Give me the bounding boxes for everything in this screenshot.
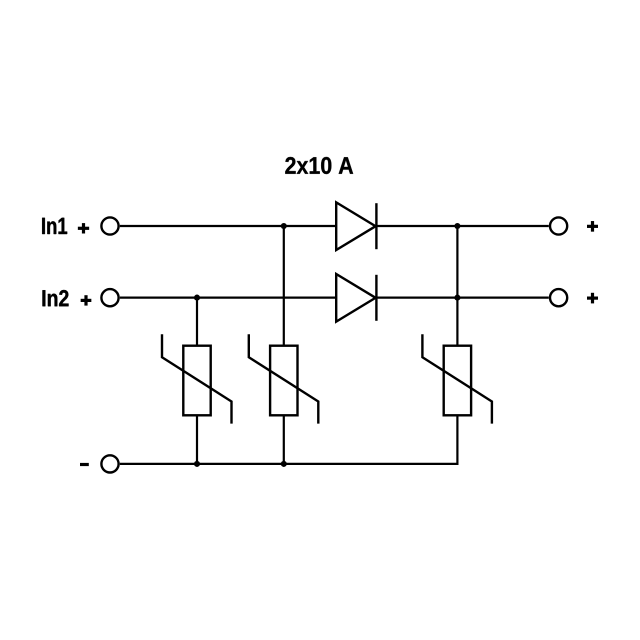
label In2 plus sign xyxy=(81,295,92,305)
wire D1 to output terminal xyxy=(376,225,548,227)
diode D2 xyxy=(336,274,376,322)
junction In2 and varistor R1 branch xyxy=(194,295,200,301)
terminal minus xyxy=(101,455,118,472)
wire In2 to diode D2 xyxy=(120,297,336,299)
label In1 xyxy=(42,218,67,234)
terminal Out2 xyxy=(550,289,567,306)
wire vertical from In1 line to varistor R2 xyxy=(283,226,285,346)
label 2x10 A xyxy=(285,157,353,174)
junction In1 and varistor R2 branch xyxy=(281,223,287,229)
varistor R1 xyxy=(162,334,232,423)
label Out2 plus sign xyxy=(587,293,598,304)
terminal Out1 xyxy=(550,217,567,234)
junction In2 and output bus xyxy=(454,295,460,301)
terminal In1 xyxy=(101,217,118,234)
junction rail and varistor R2 xyxy=(281,461,287,467)
label minus sign xyxy=(80,463,89,466)
diode D1 xyxy=(336,202,376,250)
wire varistor R2 to ground rail xyxy=(283,415,285,464)
wire vertical output bus to varistor R3 xyxy=(456,226,458,346)
wire vertical from In2 line to varistor R1 xyxy=(196,298,198,346)
wire In1 to diode D1 xyxy=(120,225,336,227)
wire ground rail with corner to varistor R3 xyxy=(120,415,458,464)
junction rail and varistor R1 xyxy=(194,461,200,467)
wire varistor R1 to ground rail xyxy=(196,415,198,464)
terminal In2 xyxy=(101,289,118,306)
label In2 xyxy=(43,290,69,306)
label In1 plus sign xyxy=(78,223,89,233)
varistor R3 xyxy=(422,334,492,423)
label Out1 plus sign xyxy=(587,221,598,232)
wire D2 to output terminal xyxy=(376,297,548,299)
varistor R2 xyxy=(249,334,318,423)
junction In1 and output bus xyxy=(454,223,460,229)
